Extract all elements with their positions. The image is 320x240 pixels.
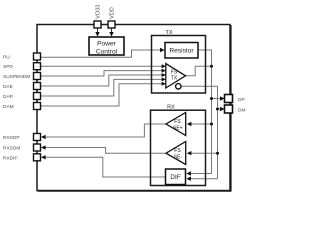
junction dot DP net / FS out [210, 65, 213, 68]
svg-text:DAM: DAM [3, 104, 14, 110]
wire SUSPENDM to TX buffer in2 [41, 71, 162, 76]
svg-text:DAE: DAE [3, 84, 13, 90]
TX buffer triangle FS/TX [166, 64, 186, 88]
pin SUSPENDM [3, 73, 41, 81]
pin DM [225, 105, 246, 113]
wire DP net to DP pin [212, 98, 222, 100]
Resistor block [165, 43, 198, 59]
svg-text:TX: TX [171, 76, 178, 82]
svg-text:PU: PU [3, 55, 10, 61]
svg-text:FS: FS [171, 69, 178, 75]
pin VO33 [94, 5, 102, 28]
comparator FS SE- [166, 142, 186, 165]
wire SE+ output to RXSDP [44, 124, 166, 137]
pin PU [3, 53, 41, 61]
RX block [151, 105, 206, 186]
svg-text:RXSDM: RXSDM [3, 146, 20, 152]
svg-text:SPD: SPD [3, 64, 13, 70]
junction dot DM net / DM pin [216, 108, 219, 111]
svg-text:DM: DM [238, 107, 245, 113]
arrow in1 [162, 64, 166, 68]
pin RXSDM [3, 144, 41, 152]
arrow VDD into power control [109, 28, 113, 37]
TX buffer inversion bubble [176, 84, 181, 89]
arrow in5 [162, 82, 166, 86]
arrow DP pin [220, 96, 225, 100]
svg-text:VO33: VO33 [96, 5, 102, 19]
wire DAP to TX buffer in4 [41, 79, 162, 96]
wire DP net to SE+ comparator input [189, 123, 212, 125]
junction dot DM net / SE- in [216, 152, 219, 155]
wire DM net to SE- comparator input [189, 152, 218, 154]
svg-text:Power: Power [97, 40, 116, 47]
arrow VO33 into power control [95, 28, 99, 37]
svg-text:DP: DP [238, 97, 245, 103]
pin DAM [3, 103, 41, 111]
arrow DIF in2 [186, 177, 191, 181]
chip outline shadow bottom [38, 190, 232, 192]
TX block [152, 30, 206, 93]
arrow SE- input [187, 151, 192, 155]
wire DIF output to RXDIF [44, 157, 166, 177]
chip outline [37, 25, 230, 191]
Power Control block [89, 37, 124, 55]
svg-text:FS: FS [174, 148, 181, 154]
arrow in4 [162, 77, 166, 81]
svg-text:DIF: DIF [170, 174, 180, 181]
arrow SE+ input [187, 122, 192, 126]
chip outline shadow right [230, 25, 232, 191]
svg-text:DAP: DAP [3, 94, 13, 100]
pin VDD [108, 7, 116, 28]
arrow RXSDP pin [41, 135, 46, 139]
junction dot DP net / DP pin [210, 97, 213, 100]
pin RXDIF [3, 154, 41, 162]
arrow DM pin [220, 107, 225, 111]
arrow RXSDM pin [41, 145, 46, 149]
svg-text:SUSPENDM: SUSPENDM [3, 74, 30, 80]
svg-text:RXDIF: RXDIF [3, 155, 17, 161]
wire FS output to DP net [186, 66, 212, 76]
wire DP net to DIF in1 [189, 173, 212, 175]
svg-text:VDD: VDD [110, 7, 116, 19]
wire resistor output / DP net vertical [198, 50, 212, 174]
wire DAE to TX buffer in3 [41, 75, 162, 86]
arrow RXDIF pin [41, 155, 46, 159]
wire PU to resistor [41, 50, 162, 57]
wire DM net to DM pin [218, 108, 222, 110]
arrow in3 [162, 73, 166, 77]
arrow into resistor [160, 48, 165, 52]
svg-text:RX: RX [167, 105, 175, 111]
arrow DIF in1 [186, 171, 191, 175]
pin DAP [3, 93, 41, 101]
svg-text:SE+: SE+ [173, 125, 183, 131]
arrow in2 [162, 69, 166, 73]
pin DP [225, 95, 245, 103]
pin RXSDP [3, 134, 41, 142]
svg-text:RXSDP: RXSDP [3, 135, 20, 141]
DIF block [166, 169, 186, 185]
pin DAE [3, 83, 41, 91]
wire DM net to DIF in2 [189, 178, 218, 180]
comparator FS SE+ [166, 113, 186, 136]
svg-text:TX: TX [165, 30, 172, 36]
svg-text:Control: Control [96, 48, 118, 55]
wire SPD to TX buffer in1 [41, 65, 162, 67]
wire bubble output / DM net vertical [181, 86, 218, 179]
svg-text:SE-: SE- [174, 155, 183, 161]
wire SE- output to RXSDM [44, 148, 166, 154]
pin SPD [3, 63, 41, 70]
junction dot DP net / SE+ in [210, 123, 213, 126]
wire DAM to TX buffer in5 [41, 84, 162, 106]
svg-text:FS: FS [174, 119, 181, 125]
svg-text:Resistor: Resistor [169, 48, 194, 55]
